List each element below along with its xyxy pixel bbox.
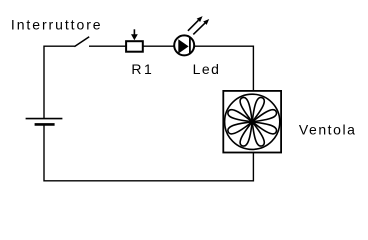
fan blade petal 4 bbox=[227, 108, 254, 125]
fan (Ventola) outer box bbox=[223, 91, 281, 153]
wire: resistor R1 to LED bbox=[144, 45, 175, 47]
LED light-emission arrow 1 bbox=[188, 16, 203, 31]
fan blade petal 3 bbox=[239, 96, 256, 123]
fan blade petal 5 bbox=[227, 118, 254, 135]
battery negative plate (short, thick) bbox=[35, 123, 55, 126]
fan blade petal 2 bbox=[249, 96, 266, 123]
fan blade petal 1 bbox=[251, 108, 278, 125]
LED cathode bar bbox=[189, 38, 191, 54]
LED (Led) circle body bbox=[174, 35, 194, 55]
adjustment arrow on R1 bbox=[131, 29, 138, 40]
svg-text:Ventola: Ventola bbox=[299, 121, 357, 137]
svg-text:Led: Led bbox=[193, 61, 221, 77]
LED anode triangle bbox=[178, 39, 188, 53]
wire: top-left corner, battery positive up to switch bbox=[44, 46, 75, 118]
wire: switch right contact to resistor R1 bbox=[89, 45, 126, 47]
svg-text:R1: R1 bbox=[131, 61, 154, 77]
fan blade petal 7 bbox=[249, 120, 266, 147]
svg-text:Interruttore: Interruttore bbox=[11, 16, 103, 32]
switch (Interruttore) blade, open bbox=[74, 37, 89, 47]
LED light-emission arrow 2 bbox=[193, 19, 209, 34]
battery positive plate (long) bbox=[26, 118, 63, 120]
wire: LED to top-right corner, down to fan bbox=[194, 46, 253, 91]
fan circle bbox=[225, 94, 280, 149]
wire: fan bottom to bottom-right corner, along bottom to battery negative bbox=[44, 124, 253, 181]
fan blade petal 8 bbox=[251, 118, 278, 135]
resistor R1 (box symbol) bbox=[126, 41, 143, 52]
fan blade petal 6 bbox=[239, 120, 256, 147]
